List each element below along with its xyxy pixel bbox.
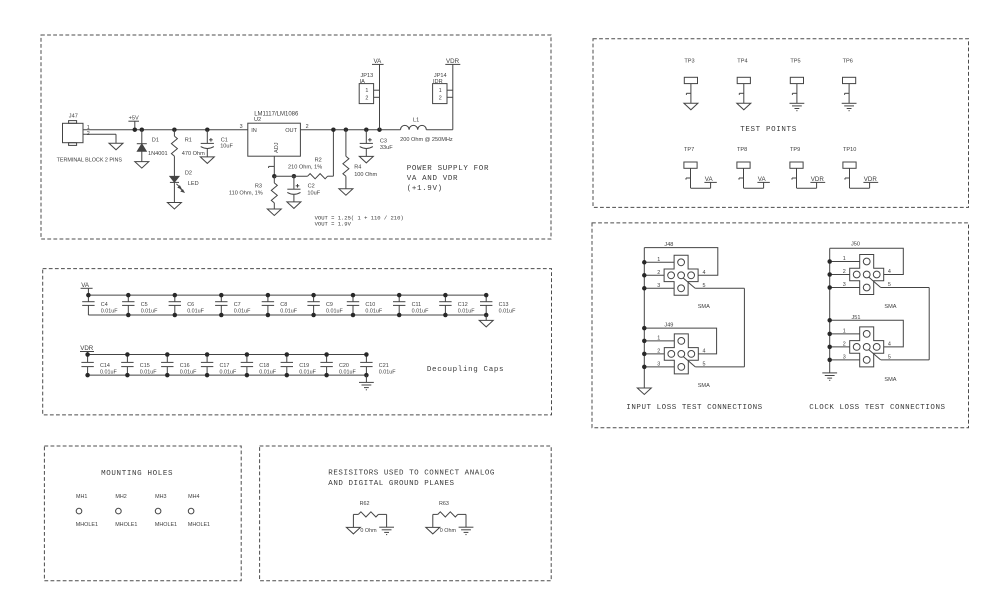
svg-text:R2: R2 — [315, 158, 322, 164]
svg-text:MHOLE1: MHOLE1 — [155, 522, 177, 528]
power supply section border — [41, 35, 551, 239]
diode D1 1N4001 — [137, 144, 147, 162]
J48 pin3 wire — [644, 287, 674, 289]
test point TP10 — [843, 162, 856, 188]
J50 top wire — [830, 248, 904, 274]
junction J49 pin3 — [642, 365, 647, 370]
ground TP5 — [790, 103, 805, 110]
J51 top wire — [830, 320, 904, 347]
svg-text:J50: J50 — [851, 242, 860, 248]
svg-text:C5: C5 — [141, 302, 148, 308]
svg-text:SMA: SMA — [884, 304, 896, 310]
junction J51 pin2 — [827, 345, 832, 350]
svg-text:5: 5 — [888, 355, 891, 361]
svg-text:CLOCK LOSS TEST CONNECTIONS: CLOCK LOSS TEST CONNECTIONS — [809, 404, 945, 412]
svg-text:VDR: VDR — [446, 58, 460, 65]
JP13 pin stubs — [374, 90, 380, 97]
junction J51 pin1 — [827, 332, 832, 337]
capacitor C17 0.01uF — [201, 355, 213, 376]
svg-text:210 Ohm, 1%: 210 Ohm, 1% — [288, 165, 322, 171]
capacitor C20 0.01uF — [320, 355, 332, 376]
svg-text:D1: D1 — [152, 138, 159, 144]
svg-text:0.01uF: 0.01uF — [100, 369, 117, 375]
svg-text:C4: C4 — [101, 302, 108, 308]
capacitor C14 0.01uF — [81, 355, 93, 376]
junction C10 bottom — [351, 313, 356, 318]
svg-text:5: 5 — [888, 282, 891, 288]
svg-text:4: 4 — [888, 269, 891, 275]
svg-text:INPUT LOSS TEST CONNECTIONS: INPUT LOSS TEST CONNECTIONS — [626, 404, 762, 412]
test connections section border — [592, 223, 969, 428]
test point TP5 — [790, 77, 803, 103]
svg-text:C15: C15 — [140, 363, 150, 369]
junction R1 — [172, 127, 177, 132]
svg-text:SMA: SMA — [698, 383, 710, 389]
junction C19 top — [285, 352, 290, 357]
svg-text:1: 1 — [439, 88, 442, 94]
inductor L1 — [401, 125, 427, 129]
svg-text:C8: C8 — [280, 302, 287, 308]
J49 top wire — [644, 328, 716, 354]
J49 pin3 wire — [644, 366, 674, 368]
svg-text:R1: R1 — [185, 138, 192, 144]
JP14 pin stubs — [447, 90, 453, 97]
svg-text:ADJ: ADJ — [274, 142, 280, 153]
capacitor C5 0.01uF — [122, 295, 134, 315]
junction C18 bottom — [245, 373, 250, 378]
capacitor C10 0.01uF — [347, 295, 359, 315]
ground D1 — [135, 162, 149, 169]
svg-text:VA AND VDR: VA AND VDR — [407, 175, 459, 183]
VDR row top rail — [88, 354, 367, 356]
wire TP7 to net — [691, 182, 711, 188]
ground TP4 — [737, 103, 751, 110]
junction C13 bottom — [484, 313, 489, 318]
ground clock bus — [822, 373, 837, 380]
test point TP7 — [684, 162, 697, 188]
svg-text:C3: C3 — [380, 138, 387, 144]
capacitor C18 0.01uF — [241, 355, 253, 376]
junction J50 pin1 — [827, 259, 832, 264]
svg-text:TP3: TP3 — [684, 59, 694, 65]
ground C1 — [200, 157, 214, 164]
junction +5V — [133, 127, 138, 132]
svg-text:2: 2 — [365, 95, 368, 101]
ground TP6 — [842, 103, 857, 110]
capacitor C19 0.01uF — [281, 355, 293, 376]
wire J47 pin1 to U2 IN — [83, 129, 248, 131]
test point TP6 — [843, 77, 856, 103]
svg-text:2: 2 — [657, 270, 660, 276]
junction out3 — [364, 127, 369, 132]
J49 pin2 wire — [644, 353, 664, 355]
svg-text:IA: IA — [360, 79, 366, 85]
junction C19 bottom — [285, 373, 290, 378]
svg-text:SMA: SMA — [698, 304, 710, 310]
svg-text:5: 5 — [703, 283, 706, 289]
svg-text:MH3: MH3 — [155, 494, 166, 500]
svg-text:C10: C10 — [365, 302, 375, 308]
svg-text:D2: D2 — [185, 170, 192, 176]
wire U2 OUT to L1 — [300, 129, 400, 131]
net label VA decoupling — [81, 282, 93, 295]
svg-text:R4: R4 — [354, 165, 361, 171]
junction C8 bottom — [266, 313, 271, 318]
svg-text:TP9: TP9 — [790, 147, 800, 153]
net label VDR decoupling — [80, 345, 94, 354]
svg-text:MH2: MH2 — [115, 494, 126, 500]
wire TP9 to net — [797, 182, 817, 188]
junction J51 top — [827, 318, 832, 323]
svg-text:100 Ohm: 100 Ohm — [354, 172, 377, 178]
J49 pin5 wire — [695, 288, 744, 367]
ground VDR row — [359, 375, 374, 390]
junction C15 bottom — [125, 373, 129, 378]
capacitor C7 0.01uF — [215, 295, 227, 315]
svg-text:C17: C17 — [220, 363, 230, 369]
junction J48 pin2 — [642, 273, 647, 278]
junction J49 pin1 — [642, 339, 647, 344]
ground digital R63 — [459, 527, 474, 534]
junction C9 top — [311, 293, 316, 298]
svg-text:C18: C18 — [259, 363, 269, 369]
svg-text:MHOLE1: MHOLE1 — [188, 522, 210, 528]
svg-text:TEST POINTS: TEST POINTS — [740, 126, 797, 134]
J51 pin5 wire — [881, 288, 929, 360]
junction C14 top — [85, 352, 90, 357]
wire TP10 to net — [850, 182, 870, 188]
J51 pin1 wire — [830, 333, 860, 335]
junction C5 bottom — [126, 313, 131, 318]
junction ADJ node — [272, 174, 277, 179]
junction C18 top — [245, 352, 250, 357]
svg-text:TP10: TP10 — [843, 147, 856, 153]
wire L1 to VDR — [426, 64, 453, 129]
junction C6 bottom — [173, 313, 178, 318]
junction C16 bottom — [165, 373, 170, 378]
LED D2 arrows — [176, 184, 184, 192]
svg-text:1: 1 — [843, 329, 846, 335]
svg-text:3: 3 — [657, 362, 660, 368]
svg-text:POWER SUPPLY FOR: POWER SUPPLY FOR — [407, 165, 489, 173]
ground analog R63 — [426, 527, 440, 534]
svg-text:(+1.9V): (+1.9V) — [407, 185, 443, 193]
wire J47 pin2 — [83, 134, 116, 143]
wire C3 to ground — [365, 149, 367, 157]
connector J48 SMA — [664, 255, 698, 295]
svg-text:10uF: 10uF — [220, 144, 233, 150]
svg-text:0.01uF: 0.01uF — [412, 309, 429, 315]
svg-text:0.01uF: 0.01uF — [101, 309, 118, 315]
J50 pin5 wire — [881, 287, 930, 289]
J50 pin2 wire — [830, 274, 850, 276]
svg-text:5: 5 — [703, 362, 706, 368]
svg-text:R63: R63 — [439, 501, 449, 507]
svg-text:0.01uF: 0.01uF — [259, 369, 276, 375]
svg-text:33uF: 33uF — [380, 145, 393, 151]
svg-text:0.01uF: 0.01uF — [299, 369, 316, 375]
net label VA TP7 — [704, 176, 716, 183]
junction out2 — [344, 127, 349, 132]
J48 pin1 wire — [644, 261, 674, 263]
svg-text:C7: C7 — [234, 302, 241, 308]
svg-text:IN: IN — [251, 128, 257, 134]
ground R4 — [339, 189, 353, 196]
svg-text:0.01uF: 0.01uF — [379, 369, 396, 375]
svg-text:C16: C16 — [180, 363, 190, 369]
capacitor C13 0.01uF — [480, 295, 492, 315]
svg-text:2: 2 — [657, 349, 660, 355]
capacitor C9 0.01uF — [307, 295, 319, 315]
resistor R4 100 Ohm — [343, 130, 349, 189]
ground digital R62 — [379, 527, 394, 534]
wire to D1 — [141, 130, 143, 144]
junction C12 bottom — [443, 313, 448, 318]
mounting hole MH1 — [76, 508, 82, 514]
junction C11 bottom — [397, 313, 402, 318]
input bus wire — [643, 248, 645, 388]
svg-text:MH1: MH1 — [76, 494, 87, 500]
ground C3 — [359, 156, 373, 163]
svg-text:OUT: OUT — [285, 128, 297, 134]
mounting hole MH4 — [188, 508, 194, 514]
resistor R62 0 Ohm — [353, 512, 386, 528]
svg-text:R62: R62 — [360, 501, 370, 507]
VDR row bottom rail — [88, 374, 367, 376]
capacitor C3 33uF — [360, 143, 373, 148]
connector J49 SMA — [664, 334, 698, 374]
svg-text:0.01uF: 0.01uF — [458, 309, 475, 315]
svg-text:C12: C12 — [458, 302, 468, 308]
junction C4 top — [86, 293, 91, 298]
test points section border — [593, 39, 969, 208]
test point TP4 — [737, 77, 750, 103]
capacitor C12 0.01uF — [439, 295, 451, 315]
svg-text:IDR: IDR — [433, 79, 443, 85]
junction C8 top — [266, 293, 271, 298]
svg-text:110 Ohm, 1%: 110 Ohm, 1% — [229, 191, 263, 197]
wire R2 up to output — [332, 130, 334, 177]
capacitor C8 0.01uF — [262, 295, 274, 315]
junction C2 — [292, 174, 297, 179]
ground D2 — [167, 203, 181, 210]
clock bus wire — [829, 248, 831, 373]
jumper JP13 — [359, 84, 373, 104]
junction C7 bottom — [219, 313, 224, 318]
J50 pin3 wire — [830, 287, 860, 289]
junction C16 top — [165, 352, 170, 357]
J48 pin2 wire — [644, 274, 664, 276]
junction C5 top — [126, 293, 131, 298]
mounting hole MH2 — [116, 508, 122, 514]
svg-text:2: 2 — [439, 95, 442, 101]
regulator U2 LM1117/LM1086 — [248, 123, 301, 156]
svg-text:MH4: MH4 — [188, 494, 199, 500]
svg-text:2: 2 — [843, 342, 846, 348]
junction C21 bottom — [364, 373, 369, 378]
svg-text:C9: C9 — [326, 302, 333, 308]
net label VDR TP9 — [810, 176, 825, 183]
ground TP3 — [684, 103, 698, 110]
svg-text:470 Ohm: 470 Ohm — [182, 151, 205, 157]
junction J51 pin3 — [827, 358, 832, 363]
svg-text:4: 4 — [703, 270, 706, 276]
wire to C3 — [365, 130, 367, 144]
net label VDR — [445, 58, 460, 65]
svg-text:C21: C21 — [379, 363, 389, 369]
svg-text:C13: C13 — [499, 302, 509, 308]
svg-text:U2: U2 — [254, 117, 261, 123]
junction C14 bottom — [85, 373, 90, 378]
net label VDR TP10 — [863, 176, 878, 183]
capacitor C2 10uF — [287, 189, 300, 194]
junction J48 pin1 — [642, 260, 647, 265]
svg-text:3: 3 — [657, 283, 660, 289]
svg-text:0.01uF: 0.01uF — [234, 309, 251, 315]
junction J49 top — [642, 326, 647, 331]
test point TP3 — [684, 77, 697, 103]
junction C20 bottom — [324, 373, 329, 378]
svg-text:200 Ohm @ 250MHz: 200 Ohm @ 250MHz — [400, 137, 453, 143]
resistor R63 0 Ohm — [433, 512, 466, 528]
resistor R3 110 Ohm — [271, 176, 277, 209]
svg-text:L1: L1 — [413, 117, 419, 123]
svg-text:0.01uF: 0.01uF — [220, 369, 237, 375]
svg-text:MOUNTING HOLES: MOUNTING HOLES — [101, 470, 173, 478]
svg-text:C19: C19 — [299, 363, 309, 369]
resistors section border — [260, 446, 552, 581]
junction C9 bottom — [311, 313, 316, 318]
junction J49 pin2 — [642, 352, 647, 357]
junction C15 top — [125, 352, 129, 357]
wire TP8 to net — [744, 182, 764, 188]
svg-text:0.01uF: 0.01uF — [280, 309, 297, 315]
capacitor C15 0.01uF — [121, 355, 133, 376]
J48 top wire — [644, 248, 718, 276]
svg-text:0.01uF: 0.01uF — [141, 309, 158, 315]
connector J51 SMA — [850, 327, 884, 367]
svg-text:0.01uF: 0.01uF — [339, 369, 356, 375]
C3 plus sign — [368, 138, 372, 142]
J48 pin5 wire — [695, 287, 744, 289]
svg-text:VA: VA — [374, 58, 383, 65]
ground input bus — [637, 388, 651, 395]
LED D2 — [170, 176, 179, 202]
svg-text:MHOLE1: MHOLE1 — [115, 522, 137, 528]
junction out1 — [331, 127, 336, 132]
jumper JP14 — [433, 84, 447, 104]
svg-text:10uF: 10uF — [307, 191, 320, 197]
junction C11 top — [397, 293, 402, 298]
J49 pin1 wire — [644, 340, 674, 342]
connector J47 terminal block — [63, 121, 84, 146]
wire VA down — [379, 64, 381, 129]
ground C2 — [287, 202, 301, 209]
C1 plus sign — [209, 138, 213, 142]
svg-text:1: 1 — [843, 256, 846, 262]
junction C20 top — [324, 352, 329, 357]
svg-text:TP8: TP8 — [737, 147, 747, 153]
test point TP8 — [737, 162, 750, 188]
svg-text:0.01uF: 0.01uF — [140, 369, 157, 375]
wire C2 to ground — [293, 194, 295, 202]
J51 pin2 wire — [830, 346, 850, 348]
wire U2 ADJ — [269, 156, 275, 176]
svg-text:J47: J47 — [69, 114, 78, 120]
junction out4 — [377, 127, 382, 132]
svg-text:0.01uF: 0.01uF — [187, 309, 204, 315]
svg-text:AND DIGITAL GROUND PLANES: AND DIGITAL GROUND PLANES — [328, 480, 454, 488]
svg-text:0.01uF: 0.01uF — [499, 309, 516, 315]
ground J47 pin2 — [109, 143, 123, 150]
C2 plus sign — [296, 184, 300, 188]
capacitor C11 0.01uF — [393, 295, 405, 315]
svg-text:C14: C14 — [100, 363, 110, 369]
svg-text:R3: R3 — [255, 184, 262, 190]
svg-text:3: 3 — [843, 282, 846, 288]
svg-text:4: 4 — [703, 349, 706, 355]
svg-text:C20: C20 — [339, 363, 349, 369]
svg-text:0 Ohm: 0 Ohm — [360, 528, 377, 534]
junction C10 top — [351, 293, 356, 298]
svg-text:2: 2 — [843, 269, 846, 275]
wire to C2 — [293, 176, 295, 189]
ground VA row — [479, 315, 493, 327]
svg-text:1: 1 — [657, 257, 660, 263]
net label VA TP8 — [757, 176, 769, 183]
svg-text:TP5: TP5 — [790, 59, 800, 65]
junction J50 pin2 — [827, 272, 832, 277]
svg-text:C6: C6 — [187, 302, 194, 308]
resistor R1 470 Ohm — [171, 130, 177, 177]
junction C21 top — [364, 352, 369, 357]
svg-text:Decoupling Caps: Decoupling Caps — [427, 366, 504, 374]
svg-text:C2: C2 — [308, 183, 315, 189]
junction C6 top — [173, 293, 178, 298]
junction C17 top — [205, 352, 210, 357]
decoupling section border — [43, 269, 552, 415]
resistor R2 210 Ohm — [274, 174, 333, 179]
mounting hole MH3 — [155, 508, 161, 514]
junction C1 — [205, 127, 210, 132]
junction C13 top — [484, 293, 489, 298]
junction J50 pin3 — [827, 285, 832, 290]
test point TP9 — [790, 162, 803, 188]
svg-text:0.01uF: 0.01uF — [326, 309, 343, 315]
svg-text:0.01uF: 0.01uF — [180, 369, 197, 375]
capacitor C21 0.01uF — [360, 355, 372, 376]
svg-text:VOUT = 1.9V: VOUT = 1.9V — [315, 221, 352, 228]
svg-text:LED: LED — [188, 181, 199, 187]
svg-text:C11: C11 — [412, 302, 422, 308]
junction C12 top — [443, 293, 448, 298]
svg-text:3: 3 — [843, 355, 846, 361]
svg-text:3: 3 — [240, 124, 243, 130]
svg-text:0.01uF: 0.01uF — [365, 309, 382, 315]
svg-text:TP4: TP4 — [737, 59, 747, 65]
VA row top rail — [88, 294, 486, 296]
svg-text:2: 2 — [306, 124, 309, 130]
ground R3 — [267, 209, 281, 216]
svg-text:RESISITORS USED TO CONNECT ANA: RESISITORS USED TO CONNECT ANALOG — [328, 470, 495, 478]
mounting holes section border — [44, 446, 241, 581]
junction C17 bottom — [205, 373, 210, 378]
net label VA — [372, 58, 384, 65]
svg-text:1: 1 — [657, 336, 660, 342]
wire to C1 — [206, 130, 208, 144]
capacitor C16 0.01uF — [161, 355, 173, 376]
capacitor C1 10uF — [201, 143, 214, 148]
